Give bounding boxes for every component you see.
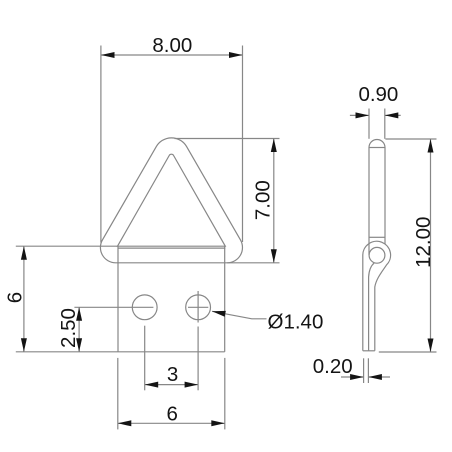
arrowhead 3 left [145, 382, 159, 388]
svg-text:7.00: 7.00 [252, 180, 275, 220]
dim bottom 6: left extension line [117, 358, 119, 430]
arrowhead bottom 6 left [118, 420, 132, 426]
arrowhead left 6 bottom [21, 338, 27, 352]
front view: outer triangle ring [100, 138, 242, 263]
dim left 6: dimension line [23, 246, 25, 352]
arrowhead 8.00 right [229, 52, 243, 58]
dim 8.00: left extension line [100, 46, 102, 243]
dim 0.20: right tail [368, 376, 390, 378]
left hole horizontal centerline / 2.50 extension [74, 306, 153, 308]
arrowhead 0.90 right (outside) [385, 112, 399, 118]
dim bottom 6: right extension line [224, 358, 226, 430]
front view: fold line at plate top [118, 247, 226, 249]
side view: bar right edge [384, 148, 386, 245]
arrowhead 3 right [185, 382, 199, 388]
arrowhead 2.50 top [76, 307, 82, 321]
svg-text:2.50: 2.50 [57, 308, 80, 348]
svg-text:12.00: 12.00 [412, 217, 435, 268]
side view: top dome cap [369, 140, 385, 148]
front view: right hole [186, 295, 211, 320]
arrowhead 0.20 left (outside) [350, 374, 364, 380]
dim 0.90: left tail [350, 114, 369, 116]
arrowhead 8.00 left [101, 52, 115, 58]
svg-text:0.20: 0.20 [313, 355, 353, 378]
arrowhead bottom 6 right [211, 420, 225, 426]
svg-text:3: 3 [167, 363, 178, 386]
dim left 6: top extension line [16, 245, 118, 247]
side view: loop inner circle [369, 247, 385, 263]
arrowhead left 6 top [21, 246, 27, 260]
side view: loop outer circle, S-curve, tail right edge and strip left edge [363, 241, 391, 351]
front view: inner triangle ring [118, 154, 226, 246]
arrowhead 12.00 bottom [428, 339, 434, 353]
dim 0.20: right extension line [367, 358, 369, 383]
side view: dome base line [369, 147, 385, 149]
arrowhead 12.00 top [428, 139, 434, 153]
right hole lower extension line for dim 3 [197, 327, 199, 391]
arrowhead 0.20 right (outside) [368, 374, 382, 380]
front view: plate bottom edge with left extension line [16, 351, 225, 353]
dim 12.00: top extension line [385, 138, 436, 140]
dim 3: dimension line [145, 384, 198, 386]
right hole horizontal centerline [188, 306, 208, 308]
dim 0.90: right extension line [384, 109, 386, 139]
arrowhead 0.90 left (outside) [356, 112, 370, 118]
side view: inner S-curve and plate back edge [369, 263, 375, 351]
dim 0.90: right tail [385, 114, 401, 116]
dim bottom 6: dimension line [118, 422, 225, 424]
right hole vertical centerline [197, 291, 199, 323]
side view: strip bottom edge [363, 350, 375, 352]
svg-text:Ø1.40: Ø1.40 [268, 310, 324, 333]
side view: bar left edge [368, 148, 370, 256]
arrowhead 7.00 bottom [271, 249, 277, 263]
svg-text:6: 6 [3, 292, 26, 303]
arrowhead 7.00 top [271, 139, 277, 153]
arrowhead 2.50 bottom [76, 338, 82, 352]
left hole lower extension line for dim 3 [144, 326, 146, 391]
dim 0.90: left extension line [368, 109, 370, 139]
side view: line across bar above loop [369, 236, 385, 238]
leader line for hole diameter callout [212, 311, 267, 319]
dim 7.00: top extension line from apex [175, 138, 280, 140]
dim 7.00: dimension line [273, 139, 275, 263]
svg-text:8.00: 8.00 [152, 34, 192, 57]
dim 12.00: dimension line [430, 139, 432, 352]
dim 2.50: dimension line [78, 307, 80, 352]
dim 12.00: bottom extension line [379, 351, 437, 353]
front view: left hole [132, 295, 157, 320]
dim 8.00: right extension line [242, 46, 244, 243]
dim 8.00: dimension line [101, 54, 243, 56]
front view: plate right edge [224, 246, 226, 352]
arrowhead leader to right hole [211, 308, 225, 316]
svg-text:0.90: 0.90 [358, 83, 398, 106]
front view: plate left edge [117, 246, 119, 352]
svg-text:6: 6 [166, 403, 177, 426]
dim 0.20: left tail [341, 376, 364, 378]
dim 0.20: left extension line [363, 358, 365, 383]
dim 7.00: bottom extension line [227, 262, 279, 264]
